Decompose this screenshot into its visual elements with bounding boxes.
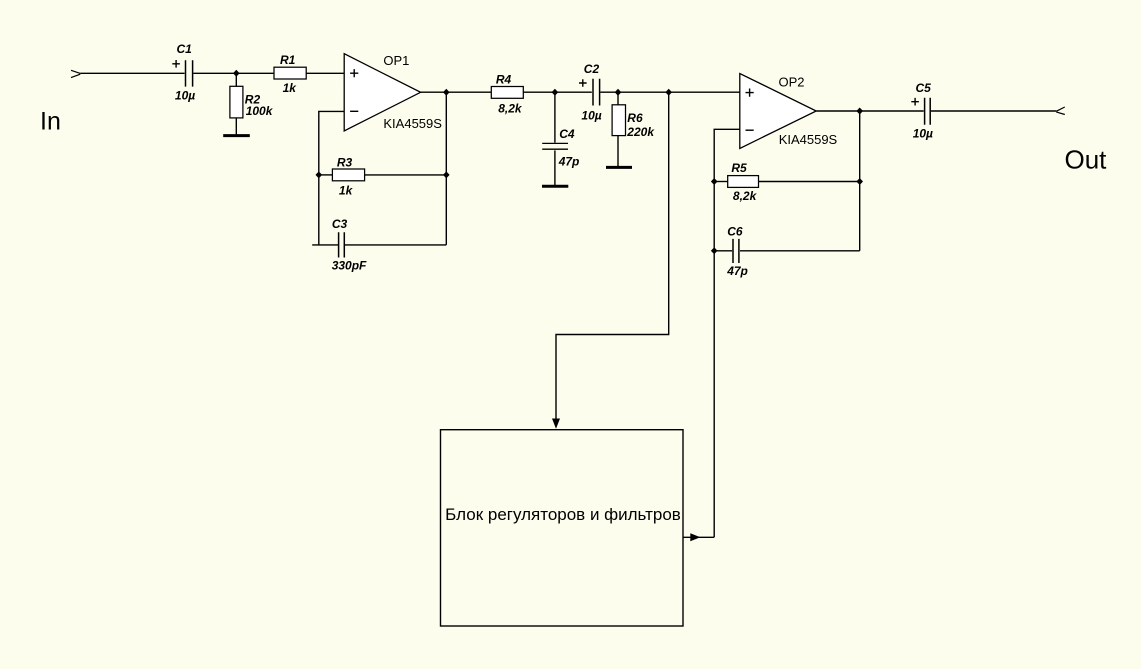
svg-text:C3: C3 [332, 217, 348, 231]
arrow out of block right [690, 533, 700, 541]
arrow into block top [552, 419, 560, 429]
svg-text:47p: 47p [558, 155, 580, 169]
wire to R3 [319, 174, 333, 176]
wire OP2 minus input [714, 129, 740, 537]
wire OP2 output feedback vertical [859, 111, 861, 251]
svg-text:C1: C1 [177, 42, 193, 56]
capacitor C1 [172, 60, 192, 87]
node C4 top [552, 89, 559, 96]
capacitor C3 [339, 232, 345, 257]
wire OP1 output feedback vertical [445, 92, 447, 245]
svg-text:10µ: 10µ [581, 108, 601, 122]
resistor R1 [274, 67, 306, 79]
resistor R6 [612, 105, 625, 136]
node R5 right [856, 178, 863, 185]
svg-text:R5: R5 [731, 161, 747, 175]
wire R5 to right vertical [759, 181, 860, 183]
capacitor C5 [911, 98, 930, 125]
wire junction to block (top arrow) [556, 92, 669, 419]
svg-text:100k: 100k [246, 104, 274, 118]
block box [441, 430, 684, 626]
wire to C4 [554, 92, 556, 142]
input connector [71, 70, 80, 77]
svg-text:1k: 1k [339, 184, 354, 198]
wire OP2 out to C5 [816, 110, 924, 112]
svg-text:330pF: 330pF [332, 259, 367, 273]
ground [606, 166, 632, 169]
node block branch [665, 89, 672, 96]
wire junction to R2 [235, 73, 237, 86]
capacitor C2 [579, 79, 600, 106]
svg-text:R4: R4 [496, 72, 512, 86]
wire to C6 [714, 250, 732, 252]
svg-text:C6: C6 [727, 225, 743, 239]
svg-text:C4: C4 [559, 127, 575, 141]
wire R6 to ground [617, 136, 619, 166]
svg-text:220k: 220k [626, 125, 655, 139]
svg-text:R1: R1 [280, 53, 296, 67]
op-amp U1 OP1 [344, 54, 420, 131]
node R5 left [711, 178, 718, 185]
resistor R5 [728, 176, 759, 188]
op-amp U2 OP2 [740, 74, 816, 149]
wire C1 to R1 [193, 72, 274, 74]
resistor R4 [491, 87, 523, 99]
wire C3 left tail [312, 244, 338, 246]
svg-text:R3: R3 [337, 155, 353, 169]
svg-text:C5: C5 [916, 81, 932, 95]
node R3 right [443, 171, 450, 178]
node A (C1/R2/R1 junction) [233, 70, 240, 77]
svg-text:8,2k: 8,2k [498, 101, 523, 115]
wire C5 to output [931, 110, 1056, 112]
svg-text:OP2: OP2 [779, 75, 805, 90]
svg-text:OP1: OP1 [383, 53, 409, 68]
node C6 left [711, 247, 718, 254]
wire C4 to ground [554, 150, 556, 185]
node OP2 out [856, 108, 863, 115]
wire OP1 minus input [319, 111, 344, 245]
ground [223, 134, 250, 137]
svg-text:10µ: 10µ [913, 127, 933, 141]
wire OP1 out to OP2 [421, 91, 740, 93]
resistor R3 [332, 169, 364, 181]
wire to R6 [617, 92, 619, 104]
svg-text:Блок регуляторов и фильтров: Блок регуляторов и фильтров [445, 505, 681, 524]
wire to R5 [714, 181, 728, 183]
svg-text:R6: R6 [627, 111, 643, 125]
svg-text:In: In [40, 108, 61, 136]
wire R3 to right vertical [365, 174, 447, 176]
svg-text:Out: Out [1065, 145, 1108, 175]
svg-text:C2: C2 [584, 62, 600, 76]
wire C3 right to vertical [345, 244, 446, 246]
svg-text:10µ: 10µ [175, 88, 195, 102]
resistor R2 [230, 86, 243, 118]
wire input to C1 [80, 72, 184, 74]
capacitor C4 [542, 143, 568, 149]
node OP1 out [443, 89, 450, 96]
output connector [1056, 107, 1065, 115]
svg-text:47p: 47p [726, 264, 748, 278]
wire C6 to right vertical [740, 250, 860, 252]
node R6 top [615, 89, 622, 96]
node R3 left [316, 171, 323, 178]
svg-text:8,2k: 8,2k [733, 189, 758, 203]
svg-text:KIA4559S: KIA4559S [779, 132, 838, 147]
svg-text:1k: 1k [283, 81, 298, 95]
svg-text:KIA4559S: KIA4559S [383, 116, 442, 131]
wire block to OP2 feedback (right arrow) [683, 536, 714, 538]
ground [542, 185, 568, 188]
wire R2 to ground [235, 118, 237, 134]
capacitor C6 [733, 239, 739, 263]
wire R1 to OP1 [306, 72, 344, 74]
